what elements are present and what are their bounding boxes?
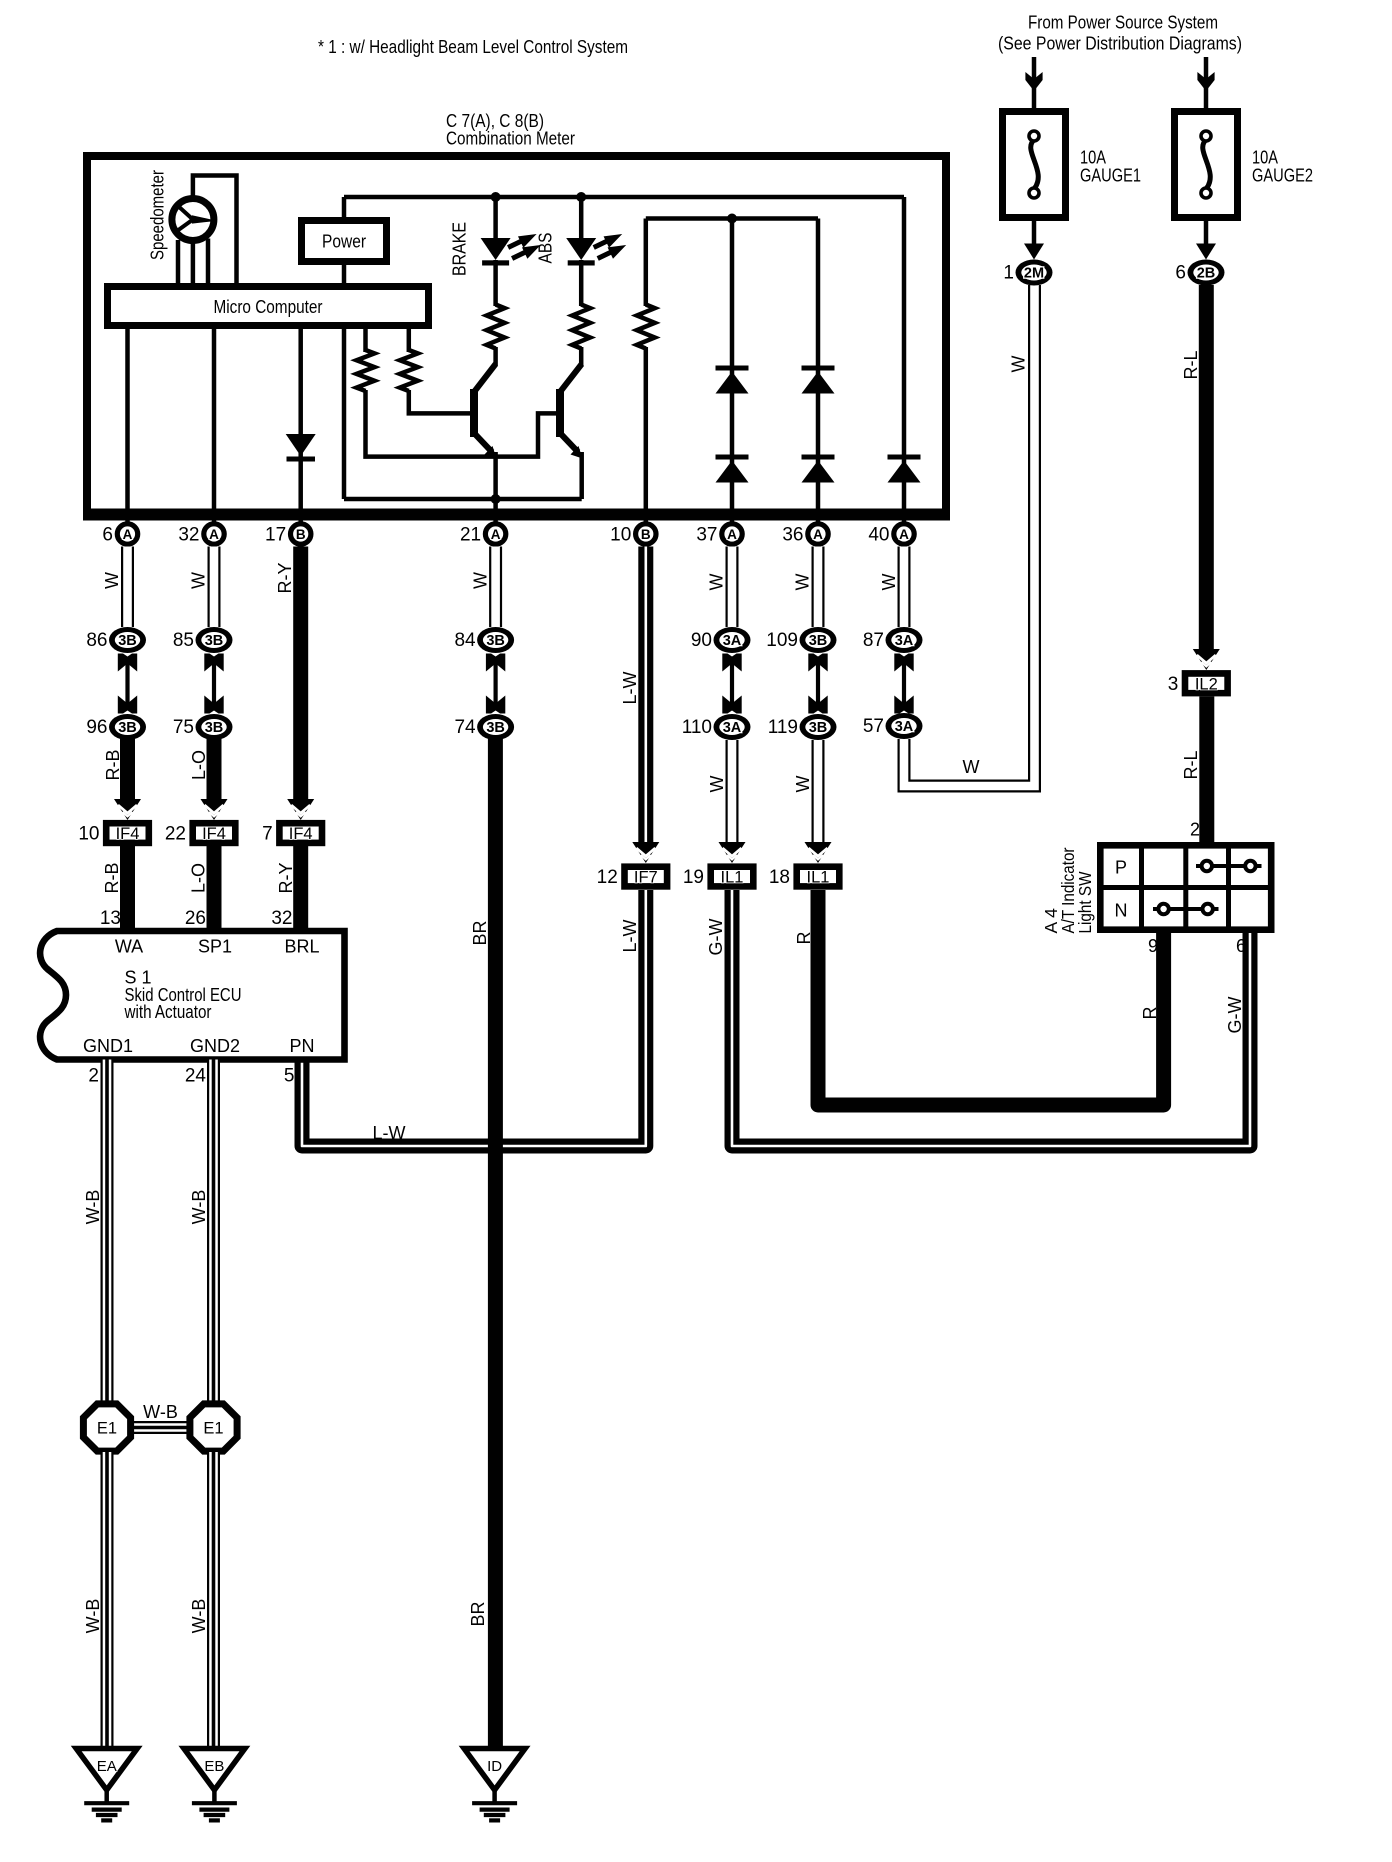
svg-text:18: 18 [769, 867, 790, 888]
wire R-L 2B to IL2 [1199, 285, 1214, 651]
wire W pin40 to 87 [898, 547, 911, 628]
svg-text:84: 84 [454, 630, 476, 651]
connector 12 IF7 [597, 863, 671, 889]
wire: abs led branch [579, 197, 584, 240]
svg-text:GND1: GND1 [83, 1036, 133, 1056]
fuse 10A GAUGE1 [1003, 112, 1142, 218]
svg-text:G-W: G-W [706, 918, 726, 955]
combination meter box bottom edge [83, 509, 950, 521]
svg-text:10A: 10A [1252, 148, 1278, 168]
pin 17 (B) of combination meter [265, 524, 311, 546]
svg-text:3B: 3B [486, 633, 505, 649]
svg-text:R-Y: R-Y [276, 863, 296, 894]
svg-text:W: W [102, 572, 122, 589]
svg-text:A: A [123, 527, 133, 542]
wire W 110 to IL1 [726, 740, 739, 846]
wire W-B GND1 to E1 [101, 1060, 114, 1404]
arrow into IL1 18 [805, 842, 832, 863]
svg-text:36: 36 [782, 525, 803, 546]
wire W-B between E1 junctions [130, 1421, 190, 1434]
svg-text:3B: 3B [809, 720, 828, 736]
wire: micro computer to pin 32 [212, 329, 217, 522]
pin 21 (A) of combination meter [460, 524, 506, 546]
svg-text:3B: 3B [118, 720, 137, 736]
transistor Q1 [470, 364, 497, 459]
svg-text:75: 75 [173, 717, 194, 738]
ground EA [76, 1749, 137, 1821]
svg-text:7: 7 [262, 824, 273, 845]
svg-text:119: 119 [768, 717, 798, 738]
connector 18 IL1 [769, 863, 843, 889]
wire: rail through diodes to pin 37 [730, 219, 735, 523]
node: junction dots on top rail [491, 192, 501, 202]
junction arrows 90-110 [722, 654, 741, 714]
svg-text:22: 22 [165, 824, 186, 845]
wire: micro computer down to emitter rail [342, 329, 347, 499]
arrow into connector 2M [1024, 244, 1044, 260]
connector 85 3B [173, 627, 233, 653]
svg-text:GAUGE1: GAUGE1 [1080, 166, 1141, 186]
arrow into IL2 3 [1193, 649, 1220, 670]
wire W pin6 to 86 [121, 547, 134, 628]
svg-text:W: W [879, 574, 899, 591]
svg-text:BR: BR [468, 1601, 488, 1626]
svg-text:3: 3 [1168, 674, 1179, 695]
svg-text:SP1: SP1 [198, 937, 232, 957]
wire: top rail y197 [344, 195, 904, 200]
wire: micro computer through diode to pin 17 [298, 329, 303, 522]
svg-text:A: A [491, 527, 501, 542]
svg-text:10: 10 [78, 824, 99, 845]
svg-text:W-B: W-B [83, 1599, 103, 1634]
wire: resistor branch to Q2 base [363, 329, 368, 352]
svg-text:L-O: L-O [189, 750, 209, 780]
svg-text:2B: 2B [1197, 266, 1216, 282]
power supply block [302, 197, 387, 287]
svg-text:3B: 3B [205, 720, 224, 736]
wire: brake led branch [493, 197, 498, 240]
svg-text:W: W [471, 572, 491, 589]
wire W 119 to IL1 [812, 740, 825, 846]
wire BR 74 to ID ground [488, 738, 503, 1749]
wire W pin21 to 84 [489, 547, 502, 628]
svg-text:A: A [899, 527, 909, 542]
resistor Q2 base [357, 350, 375, 391]
wire: rail to resistor to pin 10 [644, 219, 649, 307]
wire R-B 96 to IF4 [120, 738, 135, 801]
wire fuse to 2B [1204, 221, 1209, 248]
svg-text:R-L: R-L [1181, 350, 1201, 379]
svg-text:85: 85 [173, 630, 194, 651]
connector 22 IF4 [165, 820, 239, 846]
connector 96 3B [86, 714, 146, 740]
svg-text:Power: Power [322, 231, 366, 252]
pin 32 (A) of combination meter [178, 524, 224, 546]
svg-text:2: 2 [1190, 820, 1200, 840]
svg-text:ID: ID [487, 1758, 502, 1775]
svg-text:5: 5 [284, 1066, 295, 1087]
connector 19 IL1 [683, 863, 757, 889]
svg-text:From Power Source System: From Power Source System [1028, 13, 1218, 33]
connector 1 2M [1003, 260, 1052, 286]
svg-text:IF4: IF4 [202, 825, 226, 843]
svg-text:R: R [1140, 1007, 1160, 1020]
svg-text:W: W [707, 574, 727, 591]
svg-text:EB: EB [204, 1758, 224, 1775]
svg-text:3B: 3B [486, 720, 505, 736]
svg-text:90: 90 [691, 630, 712, 651]
svg-text:GND2: GND2 [190, 1036, 240, 1056]
connector 6 2B [1175, 260, 1224, 286]
svg-text:W: W [963, 757, 980, 777]
wire W pin36 to 109 [812, 547, 825, 628]
svg-text:G-W: G-W [1225, 996, 1245, 1033]
svg-text:W-B: W-B [189, 1599, 209, 1634]
svg-text:W: W [189, 572, 209, 589]
svg-text:BRAKE: BRAKE [449, 222, 470, 276]
LED BRAKE indicator [481, 235, 539, 266]
svg-text:L-W: L-W [620, 671, 640, 704]
svg-text:9: 9 [1148, 936, 1158, 956]
svg-text:E1: E1 [97, 1420, 117, 1438]
pin 40 (A) of combination meter [868, 524, 914, 546]
connector 84 3B [454, 627, 514, 653]
svg-text:109: 109 [766, 630, 798, 651]
wire: Q2 emitter down [579, 452, 584, 499]
ground EB [184, 1749, 245, 1821]
arrow into IF7 12 [632, 842, 659, 863]
A/T indicator light switch A4 [1100, 845, 1271, 930]
svg-text:3A: 3A [723, 633, 742, 649]
svg-text:B: B [641, 527, 651, 542]
svg-text:GAUGE2: GAUGE2 [1252, 166, 1313, 186]
connector 74 3B [454, 714, 514, 740]
resistor brake led [487, 305, 505, 349]
micro computer [108, 287, 429, 326]
svg-text:W: W [793, 776, 813, 793]
svg-text:R: R [794, 932, 814, 945]
svg-text:24: 24 [185, 1066, 207, 1087]
svg-text:R-B: R-B [102, 863, 122, 894]
skid control ECU with actuator S1 [40, 931, 344, 1060]
wire: top rail through diode to pin 40 [902, 197, 907, 522]
svg-text:110: 110 [682, 717, 712, 738]
svg-text:W-B: W-B [83, 1190, 103, 1225]
wire G-W IL1 to A/T pin6 [732, 890, 1250, 1146]
junction E1 (left) [83, 1404, 130, 1451]
arrow into IL1 19 [719, 842, 746, 863]
wire R-B IF4 to ECU WA [120, 846, 135, 929]
svg-text:W: W [707, 776, 727, 793]
junction arrows 84-74 [486, 654, 505, 714]
diode pin36 upper [802, 366, 835, 394]
svg-text:10A: 10A [1080, 148, 1106, 168]
junction arrows 109-119 [808, 654, 827, 714]
svg-text:17: 17 [265, 525, 286, 546]
junction arrows 87-57 [894, 654, 913, 714]
connector 87 3A [863, 627, 923, 653]
svg-text:6: 6 [1236, 936, 1246, 956]
junction arrows 86-96 [118, 654, 137, 714]
svg-text:1: 1 [1003, 263, 1014, 284]
svg-text:W-B: W-B [189, 1190, 209, 1225]
wire L-O 75 to IF4 [207, 738, 222, 801]
wire W-B E1 to EB [207, 1452, 220, 1749]
svg-text:3A: 3A [723, 720, 742, 736]
wire R-Y pin17 to IF4 [293, 547, 308, 802]
svg-text:32: 32 [178, 525, 199, 546]
transistor Q2 [556, 364, 583, 459]
svg-text:W-B: W-B [143, 1402, 178, 1422]
svg-text:6: 6 [1175, 263, 1186, 284]
diode pin37 lower [716, 455, 749, 483]
svg-text:3A: 3A [895, 719, 914, 735]
svg-text:ABS: ABS [535, 233, 556, 264]
svg-text:P: P [1115, 858, 1127, 878]
wire: emitter bottom rail [344, 497, 582, 502]
svg-text:3B: 3B [205, 633, 224, 649]
svg-text:with Actuator: with Actuator [124, 1002, 212, 1022]
svg-text:BR: BR [470, 920, 490, 945]
svg-text:Speedometer: Speedometer [147, 170, 168, 260]
svg-text:A: A [209, 527, 219, 542]
wire W 57 to connector 2M [904, 285, 1035, 786]
svg-text:96: 96 [86, 717, 107, 738]
svg-text:6: 6 [102, 525, 113, 546]
svg-text:B: B [296, 527, 306, 542]
wire: resistor branch to Q1 base [407, 329, 412, 352]
svg-text:Combination Meter: Combination Meter [446, 129, 575, 149]
junction arrows 85-75 [204, 654, 223, 714]
svg-text:IL1: IL1 [807, 869, 830, 887]
wire R-Y IF4 to ECU BRL [293, 846, 308, 929]
wire R-L IL2 to A/T pin2 [1199, 697, 1214, 846]
svg-text:BRL: BRL [284, 937, 319, 957]
fuse 10A GAUGE2 [1175, 112, 1314, 218]
svg-text:EA: EA [97, 1758, 117, 1775]
contact N row [1153, 904, 1219, 914]
connector 90 3A [691, 627, 751, 653]
svg-text:W: W [793, 574, 813, 591]
svg-text:13: 13 [100, 908, 121, 929]
pin 10 (B) of combination meter [610, 524, 656, 546]
svg-text:21: 21 [460, 525, 481, 546]
combination meter box C7/C8 [87, 156, 946, 516]
pin 6 (A) of combination meter [102, 524, 137, 546]
svg-text:IF7: IF7 [634, 869, 658, 887]
arrow into IF4 22 [201, 799, 228, 820]
diode pin37 upper [716, 366, 749, 394]
connector 7 IF4 [262, 820, 325, 846]
pin 36 (A) of combination meter [782, 524, 828, 546]
svg-text:3B: 3B [118, 633, 137, 649]
resistor abs led [572, 305, 590, 349]
svg-text:R-Y: R-Y [275, 563, 295, 594]
wire: second rail y218.5 [646, 216, 818, 221]
resistor pin10 branch [637, 305, 655, 349]
svg-text:L-W: L-W [620, 919, 640, 952]
svg-text:57: 57 [863, 716, 884, 737]
arrow into connector 2B [1196, 244, 1216, 260]
svg-text:N: N [1115, 901, 1128, 921]
diode pin36 lower [802, 455, 835, 483]
svg-text:86: 86 [86, 630, 107, 651]
svg-text:10: 10 [610, 525, 631, 546]
svg-text:3B: 3B [809, 633, 828, 649]
svg-text:37: 37 [696, 525, 717, 546]
svg-text:26: 26 [185, 908, 206, 929]
svg-text:* 1 : w/ Headlight Beam Level: * 1 : w/ Headlight Beam Level Control Sy… [318, 36, 628, 57]
svg-text:2M: 2M [1024, 266, 1044, 282]
svg-text:IL2: IL2 [1195, 675, 1218, 693]
diode pin17 branch [286, 434, 316, 462]
connector 75 3B [173, 714, 233, 740]
resistor Q1 base [400, 350, 418, 391]
wire R IL1 to A/T pin9 [818, 890, 1164, 1105]
pin 37 (A) of combination meter [696, 524, 742, 546]
svg-text:WA: WA [115, 937, 143, 957]
svg-text:IF4: IF4 [289, 825, 313, 843]
wire: junction to pin 21 [493, 499, 498, 522]
svg-text:PN: PN [289, 1036, 314, 1056]
svg-text:Light SW: Light SW [1075, 871, 1095, 933]
connector 86 3B [86, 627, 146, 653]
svg-text:Micro Computer: Micro Computer [214, 296, 323, 317]
svg-text:19: 19 [683, 867, 704, 888]
wire: rail through diodes to pin 36 [816, 219, 821, 523]
ground ID [464, 1749, 525, 1821]
connector 3 IL2 [1168, 670, 1231, 696]
svg-text:IF4: IF4 [116, 825, 140, 843]
contact P row [1196, 861, 1262, 871]
wire L-W pin10 to IF7 [638, 547, 653, 845]
wire W pin32 to 85 [208, 547, 221, 628]
wire W-B GND2 to E1 [207, 1060, 220, 1404]
svg-text:L-W: L-W [373, 1123, 406, 1143]
diode pin40 [888, 455, 921, 483]
svg-text:32: 32 [271, 908, 292, 929]
svg-text:W: W [1009, 356, 1029, 373]
wire: micro computer to pin 6 [125, 329, 130, 522]
svg-text:2: 2 [88, 1066, 99, 1087]
junction E1 (right) [190, 1404, 237, 1451]
wire L-O IF4 to ECU SP1 [207, 846, 222, 929]
wire from power source to fuse GAUGE1 [1032, 57, 1037, 110]
svg-text:IL1: IL1 [721, 869, 744, 887]
svg-text:3A: 3A [895, 633, 914, 649]
connector 109 3B [766, 627, 836, 653]
svg-text:E1: E1 [203, 1420, 223, 1438]
svg-text:74: 74 [454, 717, 476, 738]
connector 10 IF4 [78, 820, 152, 846]
wire from power source to fuse GAUGE2 [1204, 57, 1209, 110]
connector 57 3A [863, 713, 923, 739]
svg-text:R-B: R-B [103, 750, 123, 781]
svg-text:L-O: L-O [189, 863, 209, 893]
wire W-B E1 to EA [101, 1452, 114, 1749]
svg-text:12: 12 [597, 867, 618, 888]
svg-text:(See Power Distribution Diagra: (See Power Distribution Diagrams) [998, 34, 1242, 54]
connector 119 3B [768, 714, 837, 740]
wire: Q1 emitter to junction [493, 452, 498, 500]
svg-text:A: A [813, 527, 823, 542]
LED ABS indicator [566, 235, 624, 266]
connector 110 3A [682, 714, 751, 740]
wire W pin37 to 90 [726, 547, 739, 628]
svg-text:A: A [727, 527, 737, 542]
speedometer [147, 170, 237, 284]
svg-text:87: 87 [863, 630, 884, 651]
svg-text:40: 40 [868, 525, 889, 546]
wire fuse to 2M [1032, 221, 1037, 248]
wire L-W IF7 to ECU PN pin5 [302, 890, 646, 1146]
svg-text:R-L: R-L [1181, 750, 1201, 779]
arrow into IF4 7 [287, 799, 314, 820]
arrow into IF4 10 [114, 799, 141, 820]
